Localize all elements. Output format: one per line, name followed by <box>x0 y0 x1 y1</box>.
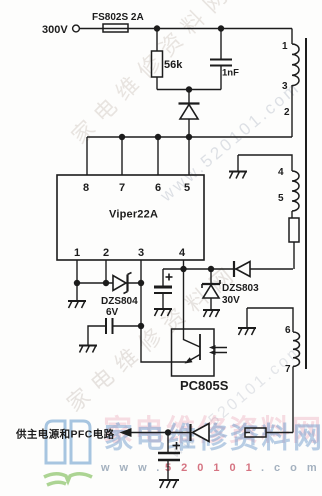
svg-text:7: 7 <box>119 182 125 194</box>
junction dot pin2 <box>103 280 109 286</box>
capacitor feedback <box>106 318 113 334</box>
phototransistor emitter <box>186 355 200 363</box>
capacitor 1nF <box>210 60 232 66</box>
watermark logo book blue panels <box>46 421 90 463</box>
svg-text:3: 3 <box>138 247 144 259</box>
wire node A down to primary pin1 <box>291 29 293 45</box>
wire zener DZS803 to ground <box>210 298 212 310</box>
wire pin2 stub down <box>105 260 107 283</box>
svg-text:4: 4 <box>278 167 284 178</box>
ground feedback cap <box>79 346 97 353</box>
svg-text:1nF: 1nF <box>222 68 239 79</box>
watermark logo green swoosh <box>44 474 92 485</box>
svg-text:6V: 6V <box>106 307 119 318</box>
svg-text:4: 4 <box>179 247 186 259</box>
wire snubber diode bottom stub <box>188 119 190 137</box>
ground winding6 <box>238 328 256 335</box>
phototransistor base bar <box>199 334 201 360</box>
junction dot zener DZS803 <box>208 266 214 272</box>
aux winding 4-5 <box>238 155 299 269</box>
svg-text:FS802S 2A: FS802S 2A <box>92 12 144 23</box>
svg-text:2: 2 <box>103 247 109 259</box>
svg-text:8: 8 <box>83 182 89 194</box>
light arrow upper <box>213 348 227 353</box>
svg-text:供主电源和PFC电路: 供主电源和PFC电路 <box>15 428 115 441</box>
wire winding4 top rail <box>238 155 292 171</box>
optocoupler U2 PC805S <box>172 329 215 376</box>
node A junction dot <box>154 25 160 31</box>
svg-text:1: 1 <box>74 247 80 259</box>
coil 4-5 <box>292 171 299 211</box>
svg-text:2: 2 <box>284 107 290 118</box>
phototransistor emitter arrowhead <box>185 357 193 363</box>
wire pin3 column down <box>140 283 142 326</box>
wire node to arrow <box>130 432 168 434</box>
wire 1nF top stub <box>220 29 222 59</box>
wire diode to node <box>168 432 190 434</box>
junction dot drain bus pin7 <box>119 134 125 140</box>
ground pin1 <box>68 301 86 308</box>
svg-text:DZS804: DZS804 <box>101 296 138 307</box>
wire pin3 stub down <box>140 260 142 283</box>
wire vdd cap to ground <box>162 293 164 309</box>
arrow to main supply <box>120 428 132 437</box>
wire zener DZS803 stem <box>210 269 212 284</box>
wire pin1 to ground <box>76 283 78 301</box>
junction dot output node <box>165 429 171 435</box>
rectifier diode output <box>191 424 210 442</box>
resistor aux <box>289 218 299 242</box>
wire output cap to ground <box>167 460 169 480</box>
wire row A vdd rail <box>163 268 293 270</box>
wire row B pins 1-2-3 <box>77 282 141 284</box>
wire coil to resistor <box>291 211 293 218</box>
svg-text:5: 5 <box>278 193 284 204</box>
capacitor output electrolytic <box>158 442 180 460</box>
junction dot pin3 <box>138 280 144 286</box>
watermark diagonal URL bottom-right <box>166 341 307 463</box>
svg-text:6: 6 <box>155 182 161 194</box>
wire pin1 stub down <box>76 260 78 283</box>
svg-text:.com: .com <box>261 462 322 474</box>
junction dot snubber top <box>186 86 192 92</box>
watermark diagonal CJK middle-left <box>62 258 244 417</box>
node B junction dot <box>218 25 224 31</box>
coil 6-7 <box>293 332 300 366</box>
light arrow lower <box>209 350 216 355</box>
wire pin7 down to output row <box>292 367 294 433</box>
snubber clamp diode <box>179 104 200 120</box>
wire pin5 stub <box>188 137 190 175</box>
svg-text:520101: 520101 <box>165 462 262 474</box>
zener DZS804 6V <box>113 273 132 294</box>
watermark diagonal CJK top-left <box>67 0 238 149</box>
wire pin7 stub <box>121 137 123 175</box>
wire optocoupler collector <box>184 269 201 347</box>
fuse FS802S <box>103 24 128 32</box>
wire winding6 ground stub <box>246 308 248 328</box>
wire cap branch right <box>113 325 141 327</box>
wire vdd cap stem <box>162 269 164 286</box>
watermark diagonal URL upper-right <box>156 77 304 205</box>
ground zener DZS803 <box>203 310 220 317</box>
wire drain bus <box>87 136 292 138</box>
wire pin8 stub <box>86 137 88 175</box>
junction dot pin1 <box>74 280 80 286</box>
svg-text:300V: 300V <box>42 24 68 36</box>
wire 1nF bottom stub <box>220 67 222 90</box>
wire diode to resistor <box>245 432 250 434</box>
wire cap branch left <box>88 326 105 345</box>
resistor output <box>245 428 266 437</box>
transformer core <box>305 38 307 369</box>
junction dot feedback cap <box>138 323 144 329</box>
svg-text:www.: www. <box>100 462 169 474</box>
junction dot drain bus pin5 <box>186 134 192 140</box>
wire winding4 ground stub <box>237 155 239 171</box>
ground winding4 <box>229 172 247 179</box>
svg-text:3: 3 <box>282 81 288 92</box>
svg-text:5: 5 <box>184 182 190 194</box>
svg-text:7: 7 <box>285 364 291 375</box>
wire pin6 stub <box>157 137 159 175</box>
svg-text:家电维修资料网: 家电维修资料网 <box>104 421 322 455</box>
svg-text:Viper22A: Viper22A <box>109 209 158 221</box>
wire resistor down to vdd rail <box>293 242 295 269</box>
wire 300V input to fuse and node A <box>80 28 293 30</box>
ground output cap <box>159 480 179 488</box>
svg-text:www.520101.com: www.520101.com <box>156 77 304 205</box>
rectifier diode vdd supply <box>234 261 250 277</box>
zener DZS803 30V <box>202 280 220 298</box>
wire snubber bottom rail <box>157 89 221 91</box>
junction dot pin4 vdd <box>180 266 186 272</box>
svg-text:56k: 56k <box>164 59 183 71</box>
wire resistor to winding7 <box>266 432 293 434</box>
svg-text:1: 1 <box>282 41 288 52</box>
svg-text:6: 6 <box>285 325 291 336</box>
junction dot drain bus pin6 <box>155 134 161 140</box>
wire snubber diode top stub <box>188 90 190 104</box>
wire pin4 stub down <box>183 260 185 269</box>
wire 56k top stub <box>156 29 158 52</box>
ground vdd cap <box>154 309 172 316</box>
watermark www.520101.com bottom line <box>100 462 322 474</box>
op IC U1 Viper22A <box>57 175 204 260</box>
svg-text:DZS803: DZS803 <box>222 283 259 294</box>
tertiary winding 6-7 <box>247 308 300 433</box>
output row <box>130 433 293 480</box>
capacitor vdd electrolytic <box>154 274 173 294</box>
wire pin3 column to emitter <box>141 326 186 362</box>
primary winding 1-3 <box>292 44 299 86</box>
terminal 300V <box>73 25 80 32</box>
wire winding6 top rail <box>247 308 293 332</box>
resistor 56k <box>152 51 163 77</box>
wire primary pin3 to drain bus <box>291 85 293 137</box>
svg-text:PC805S: PC805S <box>180 378 229 393</box>
wire output cap stem <box>167 433 169 453</box>
svg-text:30V: 30V <box>222 295 240 306</box>
wire 56k bottom stub <box>156 77 158 90</box>
